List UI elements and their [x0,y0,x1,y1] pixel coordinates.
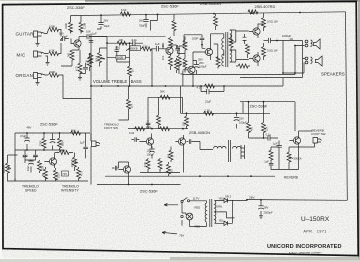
capacitor 100uF 10V [149,149,155,152]
arrow pointer 1 [164,204,178,207]
resistor 56K tremolo feed [160,95,170,99]
resistor 3.3K [88,57,92,67]
resistor 4.7K intensity lower [77,169,81,179]
wire: volume wiper to treble net [91,34,107,142]
resistor 46K feedback on rail [205,84,215,88]
ground: filter cap [259,216,263,219]
node: fb dots [200,85,202,87]
resistor 10K emitter Q2 [169,56,173,66]
resistor 1K tone return [128,66,132,76]
fuse 0.75A [181,215,183,217]
node: mid rail dots [101,85,103,87]
wire: filter cap lead [227,200,262,216]
speaker 1 [314,39,321,49]
resistor 56K on tremolo rail [71,131,81,135]
capacitor .1uF reverb gnd [269,160,274,170]
capacitor 1000uF output coupling [269,38,271,43]
speaker 2 coil [311,57,313,63]
resistor 1.5K on volume line [89,53,93,63]
resistor 1.5M bias vertical [79,22,83,32]
transformer: interstage primary winding [222,38,224,66]
wire: output node to speaker coupling [264,40,269,42]
wire: Q1 collector to coupling cap [79,36,87,38]
resistor 1.5K vertical right b [183,59,187,69]
transistor Q6 tremolo buffer [123,166,130,173]
wire: tone stack top wire [107,42,133,44]
wire: tremolo rail left drop [14,133,16,181]
capacitor 1uF driver couple [187,139,195,144]
potentiometer 500ohmB box [116,56,126,60]
resistor on reverb rail 2 [160,127,170,131]
wire: rectifier join to 28V node [233,200,248,223]
wire: driver collector net [181,52,206,86]
capacitor 1uF reverb out [277,141,282,152]
pot wiper arrow treble [126,48,131,50]
node: driver dots [192,85,194,87]
resistor 430ohm vertical [247,123,251,133]
capacitor 1uF bass [156,44,163,51]
wire: buffer bottom [97,162,181,185]
resistor 0.5ohm 1W emitter bottom [262,47,266,57]
resistor 330K tremolo [42,138,46,148]
capacitor 2.2uF tremolo [146,120,151,129]
capacitor 100uF 25V splitter [194,65,200,68]
transformer: interstage driver transformer core [226,32,228,67]
wire: center tap return [227,212,235,218]
resistor 1K rev [167,164,171,174]
lamp: pilot lamp [186,213,193,220]
wire: organ tip to 220K [42,74,49,75]
resistor 0.5ohm 1W emitter top [262,18,266,28]
resistor 560ohm reverb [169,150,173,160]
transformer: power primary winding [205,201,206,225]
wire: reverb driver ground rail [140,149,184,173]
capacitor 33uF decoupling 1 [98,23,103,25]
wire: feedback run to output [183,46,303,78]
resistor 8.2K [54,170,58,180]
wire: foot jack drop [289,143,315,152]
ground: Q1 emitter bypass [79,50,81,63]
transistor Q3 driver [188,66,195,73]
wire: transformer secondary to output bases [230,30,249,62]
fuse label lead [181,220,183,226]
wire: tremolo top rail [15,132,90,134]
speaker jack 1 circles [305,40,308,43]
node: bottom rail dots [199,175,201,177]
scan edge smudge bottom [0,259,360,262]
scan edge smudge right [358,0,360,262]
capacitor 100uF 25V [234,118,240,121]
wire: tremolo feed line [128,97,183,128]
resistor 1.6K splitter bias [177,56,181,66]
jack J5 reverb foot switch [313,138,322,144]
capacitor 47uF tremolo mid [50,140,56,143]
wire: reverb driver top rail [128,128,188,130]
capacitor 1uF tremolo out [83,144,88,152]
resistor vertical at 174 top [172,21,176,31]
label box 72V [62,171,69,176]
diode SR-2 bottom [219,221,233,225]
node: reverb in dot [263,137,265,139]
resistor 100 below output [238,64,248,68]
speaker 2 [316,56,323,66]
resistor 100ohm 2W on rail (power stage) [248,10,258,14]
potentiometer 100KB tremolo speed [6,163,10,173]
resistor 1K Q2 emitter [175,60,179,70]
transistor Q5 tremolo osc [49,158,56,165]
transistor Q2 2SC-536F second stage [166,47,173,54]
capacitor 0.01 treble [133,41,143,46]
wire: splitter to transformer primary [211,34,224,60]
capacitor 1uF Q2 out [175,45,180,54]
wire: trem bottom rail [8,178,89,181]
capacitor 47uF tremolo left [24,138,30,141]
capacitor 2000uF filter [258,206,264,209]
wire: reverb depth bottom [271,148,299,170]
capacitor 0.02 reverb drive in [132,137,140,142]
wire: long bottom rail [105,175,275,177]
wire: splitter net [184,35,205,49]
resistor on reverb rail 1 [135,127,145,131]
potentiometer 100KB intensity [73,157,77,167]
wire: speaker grounds [283,41,305,74]
wire: drop to first stage bias resistors [71,16,82,34]
transistor Q7b reverb driver [178,138,185,145]
capacitor on volume line [89,41,94,43]
transformer: interstage secondary winding [230,30,232,62]
wire: Q2 collector right [171,45,177,48]
jack J2 MIC [34,51,43,57]
wire: organ to volume bottom rail [59,75,92,99]
reverb tank springs [241,145,245,159]
diode SR-1 top [219,198,233,202]
resistor 560K horizontal [59,151,69,155]
capacitor 1uF input coupling [61,36,69,41]
ground: guitar jack sleeve [37,37,39,43]
potentiometer 50KA volume [98,53,102,63]
resistor 25K tremolo [38,161,42,171]
resistor 2.2 ohm [246,44,250,54]
wire: lamp leads [182,213,207,227]
speaker 1 coil [311,40,313,46]
jack J3 ORGAN [34,73,43,79]
wire: mid bottom rail [91,78,283,86]
resistor 330K bias vertical [69,22,73,32]
resistor 4.7K emitter 2 [78,63,82,73]
wire: B+ feed right side down [346,12,348,201]
node: output junction [276,40,278,42]
jack J4 tremolo foot [92,141,101,147]
resistor 5.6K vertical mid [157,115,161,125]
wire: speaker return vertical [303,41,306,59]
resistor 5.6K on rail [121,12,131,16]
wire: foot jack net [90,133,92,185]
resistor 560ohm Q1 emitter [70,50,74,60]
resistor 15K bass [142,47,152,51]
wire: tremolo out to foot jack [85,133,87,158]
transformer: power core [210,199,212,227]
node: 28V node dots [246,199,248,201]
resistor 1.2K on lower rail [204,111,214,115]
wire: top supply rail [71,12,346,16]
wire: reverb recovery input [249,137,279,139]
node: reverb B+ dots [248,101,250,103]
resistor 680K tremolo [58,138,62,148]
node: lower rail dots [186,112,188,114]
resistor 470 rev [158,159,162,169]
capacitor 33uF decoupling 2 lead [145,15,147,28]
transistor Q4 phase splitter [205,48,212,55]
capacitor 500uF bypass [80,63,88,74]
wire: reverb footswitch line [299,130,313,132]
wire: feedback long run [89,36,166,38]
capacitor 0.1 osc a [23,152,28,160]
resistor 1.5K vertical right a [183,40,187,50]
node: rail junction dots [100,14,102,16]
node: speaker net dots [294,45,296,47]
wire: B+ feed bottom run to power supply [247,199,347,202]
capacitor 0.1 reverb in [268,135,270,140]
resistor 100K guitar input [49,28,59,32]
wire: treble drop [129,43,131,57]
switch: power switch [181,200,183,202]
resistor bias transformer right [229,38,233,48]
wire: mic tip to 4.7K [42,52,49,53]
resistor 180ohm vertical [185,116,189,126]
wire: B+ sub-feed to driver stage [151,14,158,30]
capacitor 0.01 mid [115,46,120,55]
ground: mic jack sleeve [46,56,48,62]
jack J1 GUITAR [34,31,43,37]
transistor 2SB-407RD output top [253,28,260,35]
resistor 100K reverb [269,150,273,160]
transformer: reverb core [229,140,231,162]
wire: 4.7K to node [59,43,62,54]
wire: B+ branch to reverb driver [240,102,295,131]
transistor Q7a reverb driver [146,138,153,145]
transistor 2SB-407RD output bottom [253,55,260,62]
potentiometer 50KB treble pot box [130,46,141,51]
node: treble junction [129,42,131,44]
node: trem rail dots [26,149,28,151]
capacitor 33uF decoupling 2 [143,20,148,22]
resistor 56ohm [44,169,48,179]
transformer: reverb output transformer primary [194,142,213,150]
wire: 100K to node [59,30,62,37]
resistor 4.7K mic input [49,52,59,56]
transistor Q8 reverb recovery [293,137,300,144]
ground: organ jack sleeve [37,79,39,83]
resistor 10K tap vertical [127,99,131,109]
wire: mains top [182,201,207,213]
capacitor 0.1 osc b [33,152,38,160]
node: reverb rail dots [151,128,153,130]
capacitor 0.1 stabilizing pair [243,34,247,44]
node: volume node dots [106,42,108,44]
resistor 10K treble [117,41,127,45]
capacitor 1uF interstage [87,34,89,39]
capacitor buffer in [112,166,118,171]
transformer: power secondary winding [215,201,227,224]
resistor 560 splitter emitter [216,57,220,67]
wire: guitar tip to 100K [42,30,49,34]
resistor 15K collector load Q2 [169,38,173,48]
resistor 3.3K rev bias [146,159,150,169]
resistor bias rail drop [214,16,218,26]
wire: tremolo mid rail [15,149,64,151]
feedback loop 22uF rectangle [201,86,224,94]
wire: rail branch verticals [181,86,237,129]
potentiometer 500KA reverb [287,152,291,162]
resistor 22K vertical [262,123,266,133]
arrow pointer 2 [162,231,177,234]
transformer: reverb secondary [233,146,241,148]
node: input mix node [60,39,62,41]
wire: tone net verticals [107,49,152,86]
transistor Q1 2SC-536F first stage [74,40,81,47]
capacitor 10uF 50V [28,161,34,164]
capacitor 200P phase splitter [200,35,205,45]
scan edge smudge top [85,0,360,2]
wire: osc caps joins [25,150,36,163]
node: buffer dots [128,184,130,186]
wire: mid lower rail [181,112,271,114]
capacitor 33uF decoupling 1 lead [97,15,101,29]
resistor 220K organ input [49,73,59,77]
speaker jack 2 circles [305,57,308,60]
